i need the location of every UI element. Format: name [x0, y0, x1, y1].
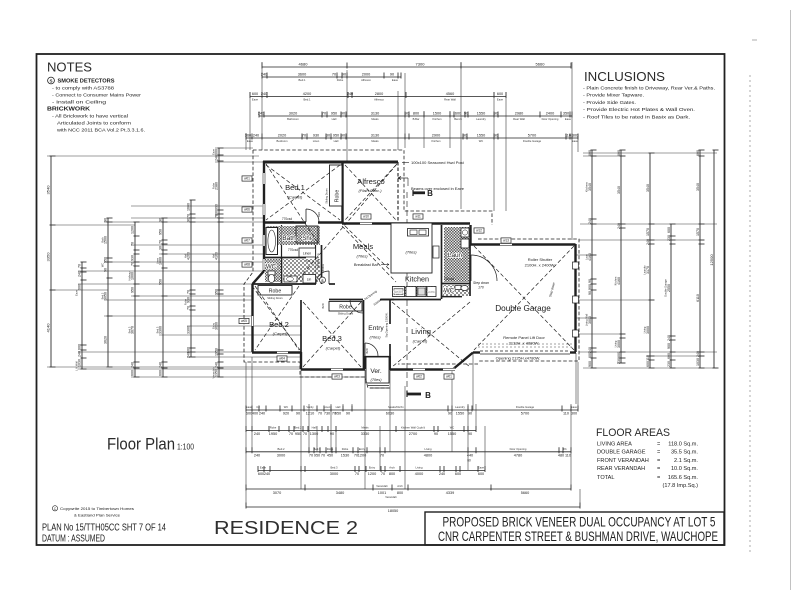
svg-text:1570: 1570: [696, 228, 700, 236]
svg-text:600: 600: [78, 344, 82, 350]
svg-text:118.0 Sq.m.: 118.0 Sq.m.: [668, 442, 698, 448]
svg-text:Eave: Eave: [252, 97, 259, 101]
svg-text:Robe: Robe: [337, 78, 344, 82]
svg-text:CNR CARPENTER STREET & BUSHMAN: CNR CARPENTER STREET & BUSHMAN DRIVE, WA…: [438, 529, 718, 544]
svg-text:TOTAL: TOTAL: [597, 475, 615, 481]
svg-text:70: 70: [187, 290, 191, 294]
svg-text:Laundry: Laundry: [642, 265, 646, 275]
svg-text:1530: 1530: [341, 453, 349, 457]
svg-text:70: 70: [289, 432, 293, 436]
svg-text:950: 950: [215, 289, 219, 295]
svg-text:Laun: Laun: [584, 254, 588, 260]
svg-text:WC: WC: [479, 139, 484, 143]
svg-text:(Tiles): (Tiles): [356, 254, 368, 259]
svg-text:Roller Shutter: Roller Shutter: [528, 257, 553, 262]
top dimension chain row 5: [245, 133, 579, 142]
svg-text:800: 800: [397, 491, 403, 495]
svg-text:3000: 3000: [330, 472, 338, 476]
svg-text:L.H.Wall: L.H.Wall: [74, 361, 78, 371]
svg-text:w02: w02: [416, 375, 422, 379]
svg-text:2133H. x 4880W.: 2133H. x 4880W.: [509, 341, 540, 346]
bottom dimension chain row B: [246, 426, 476, 436]
svg-text:Eave: Eave: [565, 117, 572, 121]
svg-text:Arch: Arch: [397, 484, 403, 488]
svg-text:30: 30: [159, 246, 163, 250]
svg-text:240: 240: [259, 412, 265, 416]
svg-text:3070: 3070: [273, 491, 281, 495]
svg-text:3600: 3600: [298, 72, 306, 76]
svg-text:(Tiles): (Tiles): [370, 377, 382, 382]
svg-text:Vanity: Vanity: [306, 405, 314, 409]
svg-text:Arch: Arch: [389, 466, 395, 470]
svg-text:70: 70: [78, 264, 82, 268]
svg-text:=: =: [657, 466, 660, 472]
svg-text:Shr: Shr: [302, 236, 311, 242]
svg-text:820: 820: [365, 348, 369, 353]
svg-text:950: 950: [314, 453, 320, 457]
svg-text:(Tiles): (Tiles): [369, 335, 381, 340]
svg-text:400: 400: [252, 412, 258, 416]
svg-text:90: 90: [341, 133, 345, 137]
svg-text:Hallway: Hallway: [127, 271, 131, 281]
svg-text:70: 70: [303, 432, 307, 436]
svg-text:350: 350: [563, 111, 569, 115]
svg-text:S: S: [49, 78, 52, 83]
svg-text:Kitchens: Kitchens: [584, 181, 588, 192]
svg-text:Ver.: Ver.: [370, 368, 382, 375]
svg-text:240: 240: [588, 218, 592, 224]
svg-text:18050: 18050: [388, 509, 399, 513]
svg-text:1:100: 1:100: [177, 443, 194, 452]
svg-text:Bed.2: Bed.2: [100, 292, 104, 299]
svg-text:1550: 1550: [477, 133, 485, 137]
svg-text:90: 90: [464, 111, 468, 115]
right dimension chain 1: [584, 150, 596, 368]
svg-text:920: 920: [283, 412, 289, 416]
svg-text:Bed.3: Bed.3: [155, 326, 159, 333]
svg-text:Bed.2: Bed.2: [277, 447, 285, 451]
svg-text:3540: 3540: [646, 184, 650, 192]
svg-text:Eave: Eave: [211, 148, 215, 154]
svg-text:240: 240: [439, 472, 445, 476]
svg-text:FRONT VERANDAH: FRONT VERANDAH: [597, 458, 649, 464]
window marker w11: [413, 214, 423, 219]
svg-text:1600: 1600: [187, 203, 191, 211]
svg-text:90: 90: [390, 72, 394, 76]
left dimension chain 6: [183, 200, 195, 358]
svg-text:Robe: Robe: [335, 190, 341, 203]
window marker w04: [277, 356, 287, 361]
wet area tiling: [266, 226, 320, 245]
svg-text:70: 70: [131, 262, 135, 266]
window marker w03: [332, 374, 342, 379]
svg-text:Lin: Lin: [307, 278, 312, 282]
svg-text:Bed.3: Bed.3: [330, 466, 338, 470]
svg-text:90: 90: [434, 432, 438, 436]
svg-text:70: 70: [215, 214, 219, 218]
svg-text:770csd: 770csd: [282, 217, 293, 221]
svg-text:Double Garage: Double Garage: [663, 279, 667, 297]
svg-text:PLAN No 15/TTH05CC SHT 7 OF 1: PLAN No 15/TTH05CC SHT 7 OF 14: [42, 523, 166, 534]
svg-text:450: 450: [327, 453, 333, 457]
svg-text:Sliding Doors: Sliding Doors: [325, 188, 329, 204]
svg-text:Kitchen Wall Cupb'd: Kitchen Wall Cupb'd: [401, 426, 426, 430]
svg-text:600: 600: [478, 472, 484, 476]
laundry tub: [461, 228, 469, 237]
svg-text:Meals: Meals: [371, 117, 379, 121]
interior walls: [341, 162, 343, 223]
svg-text:Robe: Robe: [211, 182, 215, 189]
svg-text:(Carpet): (Carpet): [413, 339, 428, 344]
eave / roof overhang dashed outline: [244, 150, 579, 388]
svg-text:w11: w11: [415, 215, 421, 219]
svg-text:Eave: Eave: [260, 466, 267, 470]
svg-text:600: 600: [455, 111, 461, 115]
top dimension chain row 4: [258, 111, 572, 121]
svg-text:Linen: Linen: [313, 139, 320, 143]
svg-text:RESIDENCE 2: RESIDENCE 2: [214, 517, 358, 538]
svg-text:Articulated Joints to conform: Articulated Joints to conform: [57, 121, 131, 126]
svg-text:2.1 Sq.m.: 2.1 Sq.m.: [674, 458, 698, 464]
svg-text:930: 930: [313, 133, 319, 137]
svg-text:Hall: Hall: [332, 117, 337, 121]
svg-text:5700: 5700: [528, 133, 536, 137]
robe Bed.2: [258, 286, 292, 296]
svg-text:3540: 3540: [617, 186, 621, 194]
svg-text:- Provide Electric Hot Plates: - Provide Electric Hot Plates & Wall Ove…: [583, 107, 695, 112]
svg-text:(17.8 Imp.Sq.): (17.8 Imp.Sq.): [663, 483, 699, 489]
svg-text:90: 90: [494, 133, 498, 137]
svg-text:Hall: Hall: [312, 426, 317, 430]
svg-text:Bedroom: Bedroom: [277, 139, 289, 143]
svg-text:w06: w06: [244, 208, 250, 212]
svg-text:950: 950: [295, 432, 301, 436]
svg-text:70: 70: [187, 306, 191, 310]
svg-text:950: 950: [333, 133, 339, 137]
window marker w05: [239, 318, 249, 323]
svg-text:Bed.3: Bed.3: [127, 326, 131, 333]
svg-text:(Carpet): (Carpet): [326, 346, 341, 351]
window marker w08: [242, 262, 252, 267]
svg-text:Entry: Entry: [211, 322, 215, 329]
svg-text:12500: 12500: [709, 254, 714, 266]
svg-text:Copywrite 2015 to Timbertown H: Copywrite 2015 to Timbertown Homes: [60, 506, 134, 511]
svg-text:WC: WC: [100, 263, 104, 267]
svg-text:& Eastland Plan Service: & Eastland Plan Service: [74, 512, 121, 517]
svg-text:240: 240: [254, 432, 260, 436]
svg-text:Living Wall: Living Wall: [584, 313, 588, 326]
window marker w06: [242, 207, 252, 212]
svg-text:Eave: Eave: [478, 466, 485, 470]
svg-text:720: 720: [306, 259, 311, 263]
right dimension chain 3: [642, 153, 654, 368]
svg-text:90: 90: [342, 72, 346, 76]
svg-text:820: 820: [317, 212, 321, 217]
svg-text:600: 600: [497, 92, 503, 96]
svg-text:Sq.Opening: Sq.Opening: [316, 253, 320, 268]
svg-text:Entry: Entry: [369, 466, 376, 470]
svg-text:Double Garage: Double Garage: [495, 304, 551, 313]
svg-text:3540: 3540: [696, 183, 700, 191]
svg-text:4680: 4680: [299, 61, 309, 66]
svg-text:- Plain Concrete finish to Dr: - Plain Concrete finish to Driveway, Rea…: [583, 86, 715, 91]
svg-text:w10: w10: [363, 215, 369, 219]
vanity basin: [284, 276, 297, 282]
svg-text:90: 90: [341, 111, 345, 115]
left dimension chain 1 (overall): [46, 156, 56, 367]
svg-text:1200: 1200: [368, 472, 376, 476]
section marker B bottom: [407, 393, 421, 396]
svg-text:3130: 3130: [371, 111, 379, 115]
robe Bed.3: [329, 302, 362, 312]
bathtub: [266, 228, 278, 255]
svg-text:- All Brickwork to have verti: - All Brickwork to have vertical: [52, 114, 128, 119]
roof truss dashed diagonals: [266, 165, 340, 220]
svg-text:w01: w01: [244, 177, 250, 181]
svg-text:(Tiles): (Tiles): [405, 250, 417, 255]
svg-text:Laundry: Laundry: [476, 117, 486, 121]
svg-text:1210: 1210: [306, 412, 314, 416]
svg-text:=: =: [657, 458, 660, 464]
smoke detector in hall: [320, 277, 326, 283]
svg-text:=: =: [657, 450, 660, 456]
svg-text:wall oven: wall oven: [394, 292, 404, 294]
svg-text:Alfresco: Alfresco: [357, 177, 384, 186]
svg-text:INCLUSIONS: INCLUSIONS: [584, 69, 665, 84]
svg-text:4560: 4560: [446, 92, 454, 96]
svg-text:Meals: Meals: [361, 426, 369, 430]
svg-text:70: 70: [332, 72, 336, 76]
svg-text:Sliding Doors: Sliding Doors: [338, 312, 354, 316]
svg-text:70: 70: [355, 472, 359, 476]
svg-text:4000: 4000: [415, 472, 423, 476]
svg-text:WC: WC: [444, 288, 455, 295]
svg-text:B: B: [425, 391, 431, 400]
svg-text:1950: 1950: [269, 432, 277, 436]
svg-text:7300: 7300: [416, 61, 426, 66]
svg-text:Verandah: Verandah: [385, 495, 397, 499]
svg-text:300: 300: [572, 133, 578, 137]
svg-text:REAR VERANDAH: REAR VERANDAH: [597, 466, 645, 472]
copyright note: [52, 506, 57, 511]
bottom dimension chain row C: [246, 447, 571, 457]
svg-text:Bed.1: Bed.1: [303, 97, 311, 101]
svg-text:LIVING AREA: LIVING AREA: [597, 442, 632, 448]
bottom witness lines: [245, 362, 247, 507]
svg-text:3130: 3130: [371, 133, 379, 137]
svg-text:Eave: Eave: [246, 405, 253, 409]
svg-text:=: =: [657, 475, 660, 481]
svg-text:(Plain Conc.): (Plain Conc.): [358, 188, 382, 193]
svg-text:Eave: Eave: [74, 289, 78, 295]
svg-text:Entry: Entry: [368, 325, 384, 332]
window glazing breaks: [262, 173, 265, 184]
svg-text:600: 600: [667, 227, 671, 233]
svg-text:Sliding Doors: Sliding Doors: [267, 296, 283, 300]
svg-text:WC: WC: [266, 264, 277, 271]
svg-text:70: 70: [159, 240, 163, 244]
svg-text:Remote Panel Lift Door: Remote Panel Lift Door: [503, 335, 545, 340]
svg-text:70: 70: [380, 453, 384, 457]
WC2 toilet: [455, 286, 461, 290]
svg-text:90: 90: [468, 432, 472, 436]
svg-text:720csd: 720csd: [444, 277, 455, 281]
svg-text:- Provide Mixer Tapware.: - Provide Mixer Tapware.: [583, 93, 644, 98]
svg-text:950: 950: [159, 229, 163, 235]
project title box: [425, 512, 724, 545]
svg-text:Bed.1: Bed.1: [298, 78, 306, 82]
svg-text:90: 90: [405, 111, 409, 115]
svg-text:Meals: Meals: [353, 242, 373, 251]
svg-text:w08: w08: [244, 263, 250, 267]
svg-text:800: 800: [389, 472, 395, 476]
svg-text:Sq.Opening 1500W.: Sq.Opening 1500W.: [385, 312, 389, 337]
svg-text:Eave: Eave: [571, 405, 578, 409]
svg-text:950: 950: [131, 287, 135, 293]
svg-text:w05: w05: [241, 319, 247, 323]
svg-text:600: 600: [159, 370, 163, 376]
svg-text:230: 230: [667, 361, 671, 367]
svg-text:Living: Living: [613, 340, 617, 347]
svg-text:Hall: Hall: [336, 405, 341, 409]
svg-text:800: 800: [413, 111, 419, 115]
svg-text:950: 950: [335, 412, 341, 416]
svg-text:w03: w03: [334, 375, 340, 379]
kitchen appliances row: [393, 287, 405, 297]
WC toilet: [268, 271, 275, 275]
right dimension chain 6 (overall): [709, 150, 719, 368]
svg-text:Breakfast Bar: Breakfast Bar: [354, 262, 379, 267]
svg-text:90: 90: [494, 111, 498, 115]
svg-text:Floor Plan: Floor Plan: [107, 436, 175, 454]
svg-text:3000H: 3000H: [321, 264, 325, 272]
svg-text:90: 90: [159, 218, 163, 222]
bottom dimension chain row F (overall 18050): [246, 503, 580, 513]
svg-text:- to comply with AS3788: - to comply with AS3788: [52, 86, 114, 91]
svg-text:Meals: Meals: [371, 139, 379, 143]
svg-text:Linen: Linen: [155, 257, 159, 264]
window marker w02: [414, 374, 424, 379]
svg-text:30: 30: [326, 133, 330, 137]
exterior walls: [263, 161, 398, 164]
svg-text:240: 240: [347, 92, 353, 96]
svg-text:600: 600: [588, 352, 592, 358]
svg-text:FLOOR AREAS: FLOOR AREAS: [596, 427, 670, 439]
svg-text:240: 240: [258, 111, 264, 115]
svg-text:90: 90: [468, 412, 472, 416]
window marker w07: [242, 238, 252, 243]
svg-text:Door Opening: Door Opening: [542, 117, 559, 121]
scan edge artifact lines: [749, 75, 751, 555]
svg-text:Linen: Linen: [324, 405, 331, 409]
svg-text:300: 300: [571, 412, 577, 416]
svg-text:900: 900: [588, 361, 592, 367]
svg-text:5660: 5660: [521, 491, 529, 495]
left dimension chain 4: [127, 222, 139, 377]
svg-text:2020: 2020: [278, 133, 286, 137]
svg-text:Double Garage: Double Garage: [523, 139, 542, 143]
svg-text:170: 170: [478, 286, 484, 290]
svg-text:600: 600: [455, 472, 461, 476]
svg-text:1500: 1500: [433, 111, 441, 115]
svg-text:70: 70: [381, 472, 385, 476]
svg-text:240: 240: [667, 335, 671, 341]
svg-text:10.0 Sq.m.: 10.0 Sq.m.: [671, 466, 698, 472]
svg-text:1550: 1550: [477, 111, 485, 115]
svg-text:90: 90: [463, 133, 467, 137]
svg-text:Eave: Eave: [572, 139, 579, 143]
svg-text:2700: 2700: [409, 432, 417, 436]
svg-text:SMOKE DETECTORS: SMOKE DETECTORS: [58, 79, 115, 85]
svg-text:Step down: Step down: [473, 281, 489, 285]
svg-text:240: 240: [253, 133, 259, 137]
svg-text:1200: 1200: [131, 226, 135, 234]
top witness lines: [261, 62, 263, 150]
svg-text:70: 70: [318, 412, 322, 416]
door arcs: [306, 209, 319, 222]
svg-text:DOUBLE GARAGE: DOUBLE GARAGE: [597, 450, 646, 456]
left dimension chain 2: [74, 262, 86, 371]
svg-text:4200: 4200: [303, 92, 311, 96]
svg-text:Meals/Kitchn: Meals/Kitchn: [388, 405, 404, 409]
svg-text:110: 110: [565, 133, 571, 137]
svg-text:600: 600: [252, 92, 258, 96]
svg-text:Verandah: Verandah: [376, 484, 388, 488]
kitchen bench island: [391, 223, 432, 273]
svg-text:WC: WC: [284, 405, 289, 409]
verandah porch slab and steps: [366, 357, 389, 383]
svg-text:110: 110: [563, 412, 569, 416]
svg-text:600: 600: [646, 361, 650, 367]
svg-text:70: 70: [302, 133, 306, 137]
svg-text:4780: 4780: [514, 453, 522, 457]
bottom dimension chain row A: [246, 405, 578, 415]
svg-text:3000: 3000: [277, 453, 285, 457]
window marker w12: [474, 228, 484, 233]
svg-text:Robe: Robe: [327, 447, 334, 451]
svg-text:90: 90: [104, 268, 108, 272]
svg-text:Double Garage: Double Garage: [516, 405, 535, 409]
svg-text:Bath: Bath: [100, 237, 104, 243]
svg-text:w01: w01: [446, 375, 452, 379]
svg-text:480: 480: [558, 453, 564, 457]
svg-text:770csd: 770csd: [288, 248, 299, 252]
svg-text:Hall: Hall: [334, 139, 339, 143]
garage front dashed guide: [478, 343, 574, 345]
svg-text:1550: 1550: [456, 412, 464, 416]
svg-text:w04: w04: [279, 357, 285, 361]
svg-text:Door Opening: Door Opening: [510, 447, 527, 451]
svg-text:Rear Wall: Rear Wall: [444, 97, 456, 101]
svg-text:3020: 3020: [289, 111, 297, 115]
svg-text:NOTES: NOTES: [47, 60, 92, 75]
bottom dimension chain row E (subtotals): [246, 484, 571, 495]
svg-text:100x100 Seasoned Hwd Post: 100x100 Seasoned Hwd Post: [411, 160, 465, 165]
svg-text:Opening 2125H.x4780W.: Opening 2125H.x4780W.: [496, 356, 541, 361]
svg-text:900: 900: [588, 284, 592, 290]
left dimension chain 3: [100, 218, 112, 367]
svg-text:900: 900: [667, 343, 671, 349]
svg-text:2900: 2900: [432, 133, 440, 137]
top dimension chain row 2: [261, 72, 401, 82]
svg-text:BRICKWORK: BRICKWORK: [47, 107, 90, 113]
top dimension chain row 1 (overall): [262, 61, 571, 68]
svg-text:Kitchen: Kitchen: [405, 275, 429, 284]
svg-text:70: 70: [131, 242, 135, 246]
window marker w01: [444, 374, 454, 379]
section marker B top: [413, 191, 425, 194]
svg-text:110: 110: [565, 453, 571, 457]
